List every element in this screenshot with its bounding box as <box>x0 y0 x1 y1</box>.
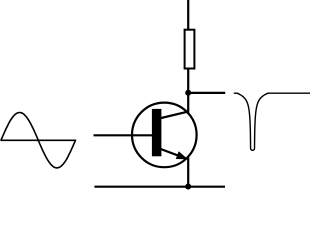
input sine waveform axis <box>1 139 76 141</box>
junction: emitter ground node <box>185 184 191 190</box>
transistor Q1 collector stroke <box>159 112 188 119</box>
wire: output tap <box>188 92 225 94</box>
wire: base input <box>94 134 154 136</box>
wire: collector to node <box>187 93 189 113</box>
wire: supply to resistor top <box>187 0 189 31</box>
transistor Q1 emitter stroke <box>159 148 186 158</box>
junction: collector node <box>185 90 191 96</box>
transistor Q1 emitter arrowhead <box>177 152 187 159</box>
resistor (collector load) <box>185 30 195 69</box>
wire: ground rail <box>94 186 225 188</box>
transistor Q1 base bar <box>152 109 162 156</box>
output pulse waveform <box>234 93 310 150</box>
wire: emitter to ground rail <box>187 158 189 187</box>
transistor Q1 circle <box>132 103 197 168</box>
wire: resistor bottom to collector node <box>187 69 189 93</box>
input sine waveform <box>1 113 76 168</box>
